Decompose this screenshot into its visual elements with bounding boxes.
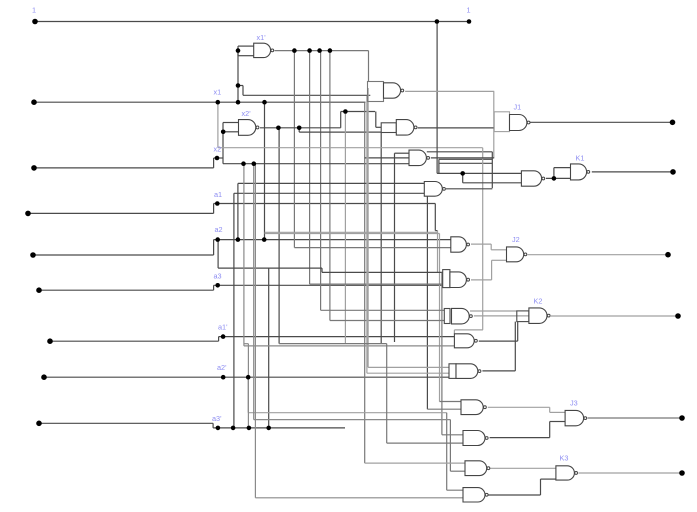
svg-text:K3: K3	[560, 454, 569, 463]
svg-text:a3: a3	[214, 272, 222, 281]
svg-text:J2: J2	[512, 235, 520, 244]
svg-text:a1': a1'	[218, 323, 228, 332]
svg-text:J3: J3	[570, 399, 578, 408]
svg-text:1: 1	[32, 6, 36, 15]
svg-text:x1: x1	[214, 88, 222, 97]
svg-text:x1': x1'	[257, 33, 267, 42]
svg-text:a2: a2	[215, 225, 223, 234]
svg-text:K2: K2	[534, 297, 543, 306]
svg-text:x2': x2'	[242, 109, 252, 118]
svg-text:a3': a3'	[212, 414, 222, 423]
svg-text:x2: x2	[214, 145, 222, 154]
svg-text:a2': a2'	[217, 363, 227, 372]
svg-text:1: 1	[467, 6, 471, 15]
svg-text:J1: J1	[514, 103, 522, 112]
svg-text:K1: K1	[576, 154, 585, 163]
svg-text:a1: a1	[214, 190, 222, 199]
